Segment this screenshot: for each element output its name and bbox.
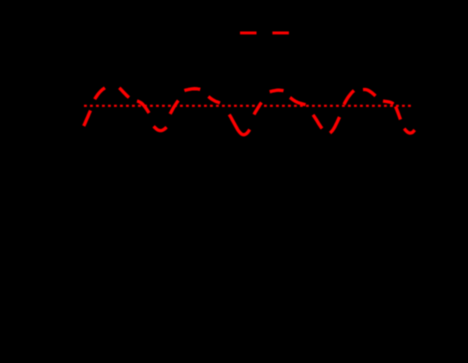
dotted horizontal reference line [84,105,414,107]
legend dashed-line handle [240,31,290,34]
dashed data curve [84,111,91,127]
